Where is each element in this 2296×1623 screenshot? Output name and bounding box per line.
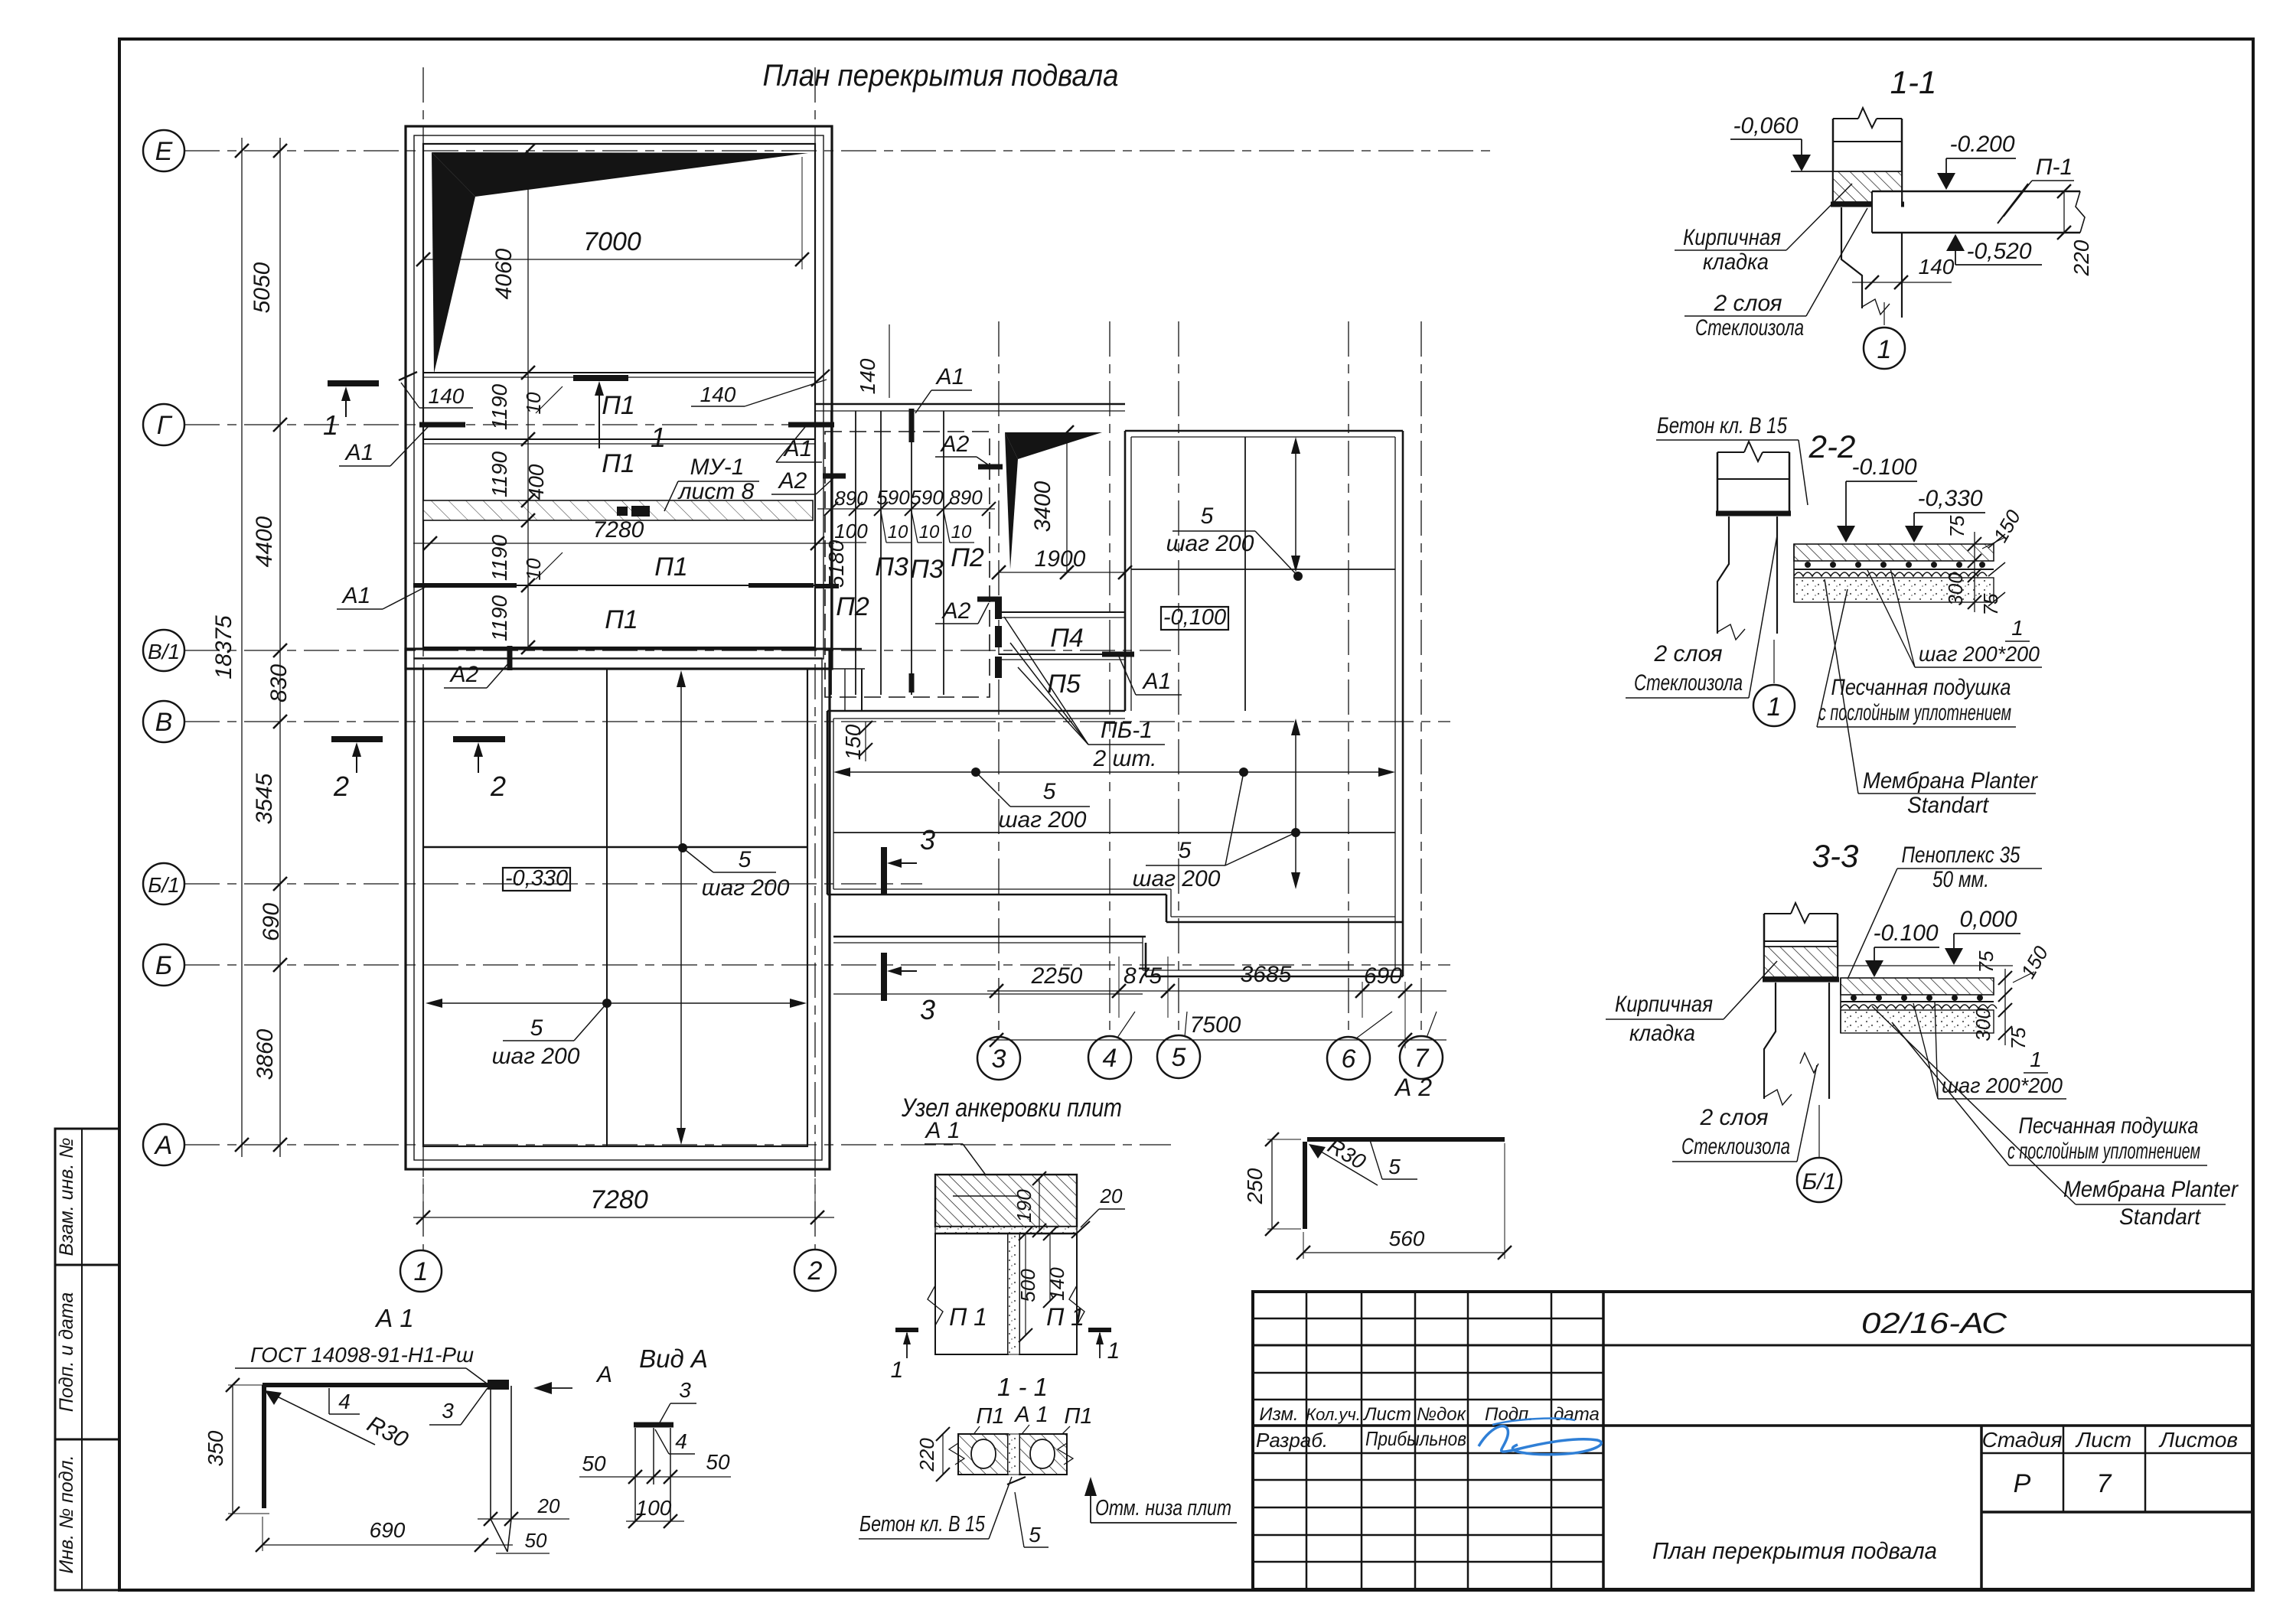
svg-text:50 мм.: 50 мм. [1932, 867, 1989, 892]
svg-text:П1: П1 [602, 449, 635, 478]
signature blue [1479, 1419, 1601, 1455]
label kirpichnaya kladka sec1-1 [1675, 184, 1852, 275]
svg-text:75: 75 [2007, 1027, 2030, 1049]
label A1 left lower [337, 583, 426, 609]
svg-text:А2: А2 [449, 662, 479, 687]
svg-text:5180: 5180 [824, 539, 848, 588]
svg-text:Б: Б [155, 951, 172, 980]
MU-1 hatch band [423, 500, 813, 520]
svg-text:с послойным уплотнением: с послойным уплотнением [2007, 1139, 2200, 1164]
svg-text:Прибыльнов: Прибыльнов [1365, 1427, 1466, 1450]
svg-text:2: 2 [807, 1256, 823, 1286]
axis B1 line [184, 883, 922, 885]
svg-text:Б/1: Б/1 [148, 873, 180, 897]
svg-text:А2: А2 [940, 432, 970, 457]
svg-text:140: 140 [1045, 1267, 1068, 1301]
svg-text:П1: П1 [654, 552, 688, 582]
svg-text:890: 890 [834, 487, 868, 510]
svg-text:1190: 1190 [488, 595, 511, 641]
slab band top line [423, 373, 815, 377]
svg-text:Изм.: Изм. [1259, 1404, 1298, 1425]
section 3-3 foundation [1764, 983, 1829, 1157]
uzel masonry block [935, 1175, 1077, 1227]
detail A1 title [374, 1304, 414, 1332]
level 0,000 sec3-3 [1945, 907, 2020, 965]
uzel dim 500 [1016, 1227, 1039, 1342]
svg-text:3: 3 [920, 824, 935, 855]
rebar extent horizontal arrow lower-left [426, 999, 807, 1008]
black wedge middle [1005, 432, 1102, 569]
svg-text:690: 690 [370, 1518, 406, 1542]
svg-text:18375: 18375 [211, 615, 236, 680]
section cut 3 upper [884, 824, 935, 895]
svg-text:П 1: П 1 [949, 1303, 987, 1331]
svg-text:7: 7 [2097, 1469, 2112, 1498]
uzel bed joint [935, 1227, 1077, 1234]
axis 5 line [1178, 321, 1179, 1036]
uzel 1-1 otm niza plit [1084, 1477, 1237, 1523]
axis circle E [143, 130, 184, 171]
svg-text:-0,330: -0,330 [505, 866, 568, 891]
axis 2 line [814, 67, 816, 1250]
vertical slabs P3 P3 P2 [831, 411, 984, 695]
label A2 lower middle [935, 598, 1002, 624]
section 3-3 floor layers [1838, 966, 2013, 1033]
svg-text:2-2: 2-2 [1808, 429, 1856, 464]
svg-text:-0,330: -0,330 [1917, 486, 1982, 511]
axis 1 line [422, 67, 424, 1250]
svg-text:690: 690 [1364, 963, 1402, 989]
svg-text:10: 10 [951, 522, 972, 543]
svg-text:1190: 1190 [488, 534, 511, 581]
label A1 right upper [776, 427, 822, 462]
detail A1 bar horizontal [263, 1383, 492, 1387]
svg-text:П2: П2 [951, 543, 984, 572]
dim 140 sec1-1 [1852, 255, 1955, 289]
circle node 1 sec1-1 [1864, 328, 1905, 369]
section cut 1 outer [323, 383, 379, 441]
label peschanaya podushka sec2-2 [1817, 589, 2016, 727]
detail A1 right leg [491, 1386, 511, 1552]
detail VidA legs [635, 1428, 670, 1521]
svg-text:3860: 3860 [253, 1028, 278, 1080]
top-left block outer wall [406, 126, 832, 669]
vertical rebar dim top-right room [1291, 437, 1300, 572]
svg-text:План перекрытия подвала: План перекрытия подвала [1652, 1537, 1937, 1564]
svg-text:50: 50 [525, 1529, 547, 1552]
axis V1 line [184, 650, 1171, 651]
svg-text:П2: П2 [836, 592, 869, 621]
svg-text:10: 10 [522, 558, 545, 580]
svg-text:75: 75 [1945, 515, 1968, 537]
section 3-3 wall [1763, 903, 1839, 979]
svg-text:5: 5 [1179, 838, 1192, 863]
svg-text:5: 5 [1201, 504, 1214, 529]
svg-text:П1: П1 [1064, 1404, 1092, 1429]
svg-text:7000: 7000 [583, 227, 641, 256]
P1 labels [602, 391, 688, 634]
svg-text:1: 1 [891, 1357, 904, 1383]
svg-text:10: 10 [888, 522, 908, 543]
svg-text:2250: 2250 [1031, 963, 1083, 989]
svg-text:2: 2 [490, 771, 506, 802]
svg-text:П4: П4 [1050, 624, 1084, 653]
axis circle 2 [794, 1250, 836, 1291]
svg-text:А1: А1 [935, 364, 965, 389]
axis circle 7 [1400, 1012, 1443, 1079]
detail A1 view arrow A [533, 1362, 612, 1394]
svg-text:План перекрытия подвала: План перекрытия подвала [763, 59, 1119, 93]
svg-text:300: 300 [1944, 572, 1967, 606]
svg-text:1: 1 [414, 1257, 429, 1286]
detail A1 R30 arrow [265, 1390, 413, 1453]
label A2 under circle 7 [1394, 1074, 1432, 1101]
svg-text:Разраб.: Разраб. [1256, 1429, 1328, 1452]
dim 4060 and 1190 rows column [488, 144, 563, 654]
svg-text:В: В [155, 708, 173, 737]
svg-text:шаг 200*200: шаг 200*200 [1942, 1074, 2063, 1097]
svg-text:П1: П1 [605, 605, 638, 634]
section cut 1 inner [573, 378, 666, 453]
section 2-2 foundation [1717, 517, 1777, 683]
svg-text:Р: Р [2014, 1469, 2031, 1498]
axis V line [184, 721, 1450, 722]
svg-text:5: 5 [1043, 779, 1056, 804]
detail A2 R30 arrow [1309, 1134, 1378, 1185]
svg-text:шаг 200: шаг 200 [702, 875, 790, 901]
dim 3400 [1030, 425, 1074, 579]
svg-text:Кирпичная: Кирпичная [1683, 225, 1781, 250]
svg-text:1 - 1: 1 - 1 [997, 1373, 1048, 1401]
wall stub at V1 right of lower-left room [830, 649, 865, 711]
svg-text:П1: П1 [602, 391, 635, 420]
uzel section mark 1 left [891, 1330, 918, 1383]
axis 3 line [998, 321, 1000, 1036]
axis circle 5 [1157, 1012, 1200, 1078]
svg-text:В/1: В/1 [148, 640, 180, 663]
svg-text:1-1: 1-1 [1890, 64, 1937, 100]
rebar label 5 shag200 upper [678, 843, 790, 901]
svg-text:Кирпичная: Кирпичная [1615, 992, 1713, 1017]
axis circle G [143, 404, 184, 445]
extension lines bottom dims [1119, 957, 1405, 1048]
dim 220 sec1-1 [2057, 184, 2093, 276]
svg-text:10: 10 [522, 392, 545, 414]
detail VidA dim 100 [626, 1496, 684, 1528]
svg-text:890: 890 [949, 486, 983, 509]
uzel slabs P1 P1 [928, 1234, 1084, 1354]
P4 slab box [995, 599, 1134, 699]
svg-text:4: 4 [675, 1429, 687, 1453]
svg-text:-0.200: -0.200 [1949, 132, 2014, 157]
middle section dashed outline [825, 432, 990, 697]
svg-text:1: 1 [1877, 335, 1892, 364]
axis 7 line [1420, 321, 1422, 1036]
axis circle V1 [143, 630, 184, 671]
label 2 sloya sec3-3 [1672, 1065, 1817, 1162]
svg-text:20: 20 [1100, 1185, 1123, 1207]
section cut 2 outer [331, 739, 383, 802]
label A2 top of lower room [444, 646, 510, 688]
svg-text:560: 560 [1389, 1227, 1425, 1250]
svg-text:220: 220 [2069, 240, 2093, 276]
svg-text:50: 50 [582, 1452, 606, 1475]
horizontal rebar dim wide room [833, 768, 1395, 777]
axis circle 3 [977, 1037, 1020, 1080]
uzel dim 190 [1013, 1172, 1046, 1237]
dim stack right sec2-2 [1944, 506, 2025, 616]
dim 150 joint [841, 721, 872, 761]
svg-text:4400: 4400 [252, 516, 277, 567]
svg-text:1: 1 [1107, 1338, 1120, 1364]
svg-text:4060: 4060 [491, 248, 517, 299]
axis circle A [143, 1124, 184, 1165]
detail VidA bar [634, 1423, 673, 1428]
svg-text:7280: 7280 [593, 517, 644, 543]
svg-text:Standart: Standart [2119, 1204, 2202, 1230]
svg-text:Стеклоизола: Стеклоизола [1695, 315, 1804, 341]
svg-text:1190: 1190 [488, 383, 511, 430]
uzel ankerovki title [901, 1093, 1122, 1123]
label P-1 [2004, 155, 2074, 217]
detail A1 dim 690 [256, 1517, 513, 1552]
svg-text:Взам. инв. №: Взам. инв. № [56, 1138, 77, 1256]
svg-text:875: 875 [1124, 963, 1162, 989]
svg-text:50: 50 [706, 1450, 730, 1474]
uzel dim 140 [1043, 1227, 1068, 1308]
svg-text:дата: дата [1554, 1404, 1600, 1425]
svg-text:Песчанная подушка: Песчанная подушка [2019, 1113, 2199, 1139]
svg-text:Мембрана Planter: Мембрана Planter [2063, 1177, 2239, 1202]
section cut 2 inner [453, 739, 506, 802]
svg-text:шаг 200: шаг 200 [1133, 866, 1221, 891]
A1 bearing ticks on axis G [419, 422, 834, 428]
svg-text:5: 5 [1172, 1043, 1186, 1072]
svg-text:830: 830 [266, 664, 292, 702]
label 2 sloya sec2-2 [1626, 536, 1777, 698]
level -0.200 [1913, 132, 2016, 191]
svg-text:МУ-1: МУ-1 [690, 455, 745, 480]
uzel 1-1 labels [970, 1403, 1093, 1442]
svg-text:кладка: кладка [1703, 249, 1769, 275]
uzel 1-1 beton label [859, 1477, 1012, 1539]
svg-text:2 слоя: 2 слоя [1654, 641, 1723, 666]
label MU-1 list 8 [664, 455, 759, 511]
rebar label 5 shag200 lower [492, 999, 612, 1069]
svg-text:Пеноплекс 35: Пеноплекс 35 [1902, 842, 2020, 868]
svg-text:Кол.уч.: Кол.уч. [1306, 1405, 1361, 1424]
uzel 1-1 section title [997, 1373, 1048, 1401]
label A2 right with tick [771, 468, 846, 494]
detail A1 flag 3 [429, 1388, 488, 1425]
axis circle B1 [143, 863, 184, 904]
svg-text:3400: 3400 [1030, 481, 1055, 532]
svg-text:1190: 1190 [488, 451, 511, 497]
detail A1 dim 20 [478, 1494, 569, 1553]
svg-text:0,000: 0,000 [1959, 907, 2017, 932]
section 1-1 wall [1831, 108, 1904, 204]
dim 1900 [992, 546, 1132, 579]
label PB-1 2sht [1004, 617, 1165, 771]
svg-text:П1: П1 [976, 1404, 1004, 1429]
svg-text:2: 2 [333, 771, 349, 802]
level box -0,100 [1161, 605, 1228, 630]
svg-text:7280: 7280 [590, 1185, 648, 1214]
detail A2 flag 5 [1370, 1140, 1417, 1179]
svg-text:Листов: Листов [2158, 1428, 2238, 1452]
svg-text:190: 190 [1013, 1189, 1035, 1223]
svg-text:Лист: Лист [1362, 1404, 1411, 1425]
level -0.100 sec3-3 [1865, 921, 1939, 977]
svg-text:Лист: Лист [2075, 1428, 2131, 1452]
detail A2 dim 250 [1243, 1133, 1301, 1236]
svg-text:02/16-АС: 02/16-АС [1861, 1308, 2007, 1340]
axis circle V [143, 701, 184, 742]
svg-text:А1: А1 [341, 583, 371, 608]
label peschanaya sec3-3 [1892, 1022, 2207, 1165]
svg-text:П-1: П-1 [2036, 155, 2073, 180]
svg-text:1900: 1900 [1035, 546, 1086, 572]
axis G line [184, 424, 838, 425]
svg-text:шаг 200: шаг 200 [999, 807, 1087, 833]
dim stack right sec3-3 [1971, 942, 2053, 1050]
detail A2 bar horizontal [1307, 1137, 1505, 1142]
label kirpichnaya sec3-3 [1606, 961, 1777, 1046]
svg-text:100: 100 [834, 520, 868, 543]
svg-text:1: 1 [323, 409, 338, 441]
svg-text:1: 1 [1767, 693, 1782, 722]
dim 7000 [416, 157, 809, 269]
detail VidA dims 50 50 [579, 1450, 731, 1484]
svg-text:Отм. низа плит: Отм. низа плит [1095, 1496, 1231, 1520]
svg-text:лист 8: лист 8 [677, 479, 755, 504]
uzel label A1 [924, 1118, 991, 1182]
axis circle B [143, 944, 184, 986]
svg-text:140: 140 [700, 383, 736, 406]
dim 140 left [399, 372, 473, 408]
axis B line [184, 964, 1450, 966]
svg-text:А2: А2 [941, 598, 971, 624]
svg-text:шаг 200*200: шаг 200*200 [1919, 642, 2040, 666]
svg-text:100: 100 [636, 1496, 672, 1520]
detail A1 GOST label [235, 1343, 490, 1386]
label A1 top of right part [912, 364, 972, 693]
detail A1 dim 350 [204, 1378, 269, 1520]
dim 7280 top-left [413, 517, 834, 550]
section cut 3 lower [884, 953, 935, 1025]
svg-text:75: 75 [1975, 950, 1998, 973]
lower wing walls [833, 937, 1403, 994]
svg-text:140: 140 [429, 384, 465, 408]
svg-text:3: 3 [920, 994, 935, 1025]
svg-text:Стадия: Стадия [1982, 1428, 2063, 1452]
svg-text:П 1: П 1 [1046, 1303, 1084, 1331]
slab separator horizontal lower-left [423, 846, 807, 849]
section 3-3 title [1812, 838, 1859, 874]
uzel section mark 1 right [1088, 1330, 1120, 1364]
uzel 1-1 slab section [949, 1434, 1073, 1475]
section 1-1 title [1890, 64, 1937, 100]
svg-text:Инв. № подл.: Инв. № подл. [56, 1455, 77, 1573]
dim 140 right [691, 370, 830, 406]
svg-text:ПБ-1: ПБ-1 [1101, 718, 1153, 743]
section 2-2 wall [1716, 442, 1791, 513]
label A1 at P5 [1119, 657, 1182, 695]
section 2-2 floor layers [1794, 544, 1994, 602]
svg-text:3545: 3545 [252, 773, 277, 824]
slab separator vertical lower-left [606, 669, 608, 1146]
svg-text:А 1: А 1 [924, 1118, 960, 1143]
slab row line 4 with bearing marks [413, 585, 839, 586]
svg-text:7500: 7500 [1190, 1012, 1241, 1038]
axis circle 4 [1088, 1012, 1135, 1079]
section 1-1 slab P-1 [1872, 184, 2085, 233]
svg-text:Standart: Standart [1907, 793, 1990, 818]
svg-text:№док: №док [1417, 1404, 1467, 1425]
svg-text:5: 5 [1388, 1155, 1401, 1178]
axis circle 1 [400, 1250, 442, 1292]
svg-text:кладка: кладка [1629, 1021, 1695, 1046]
svg-text:шаг 200: шаг 200 [492, 1044, 580, 1069]
detail VidA flag 4 [655, 1429, 695, 1454]
detail A1 left hook [262, 1385, 266, 1508]
label membrana sec3-3 [1872, 1006, 2239, 1230]
svg-text:350: 350 [204, 1430, 227, 1466]
left overall dim line 18375 [211, 138, 249, 1157]
level mark -0,330 [503, 866, 570, 891]
rebar label sec2-2 [1867, 569, 2042, 667]
title block [1253, 1292, 2252, 1589]
svg-text:590: 590 [876, 486, 910, 509]
svg-text:140: 140 [856, 358, 879, 394]
svg-text:Бетон кл. В 15: Бетон кл. В 15 [859, 1512, 986, 1537]
level -0,330 sec2-2 [1905, 486, 1985, 543]
svg-text:140: 140 [1919, 255, 1955, 279]
middle top wall double line [815, 404, 1125, 411]
svg-text:ГОСТ 14098-91-Н1-Рш: ГОСТ 14098-91-Н1-Рш [250, 1343, 474, 1367]
rebar label sec3-3 [1913, 1002, 2066, 1099]
svg-text:Г: Г [157, 411, 173, 440]
axis E line [184, 150, 1492, 152]
slab line wide room [833, 828, 1395, 837]
svg-text:5: 5 [739, 847, 752, 872]
label 5 shag200 wide room 2 [1133, 772, 1296, 891]
svg-text:-0,100: -0,100 [1163, 605, 1226, 630]
svg-text:3: 3 [679, 1378, 691, 1402]
svg-text:3: 3 [992, 1045, 1006, 1074]
svg-text:А 2: А 2 [1394, 1074, 1432, 1101]
svg-text:Бетон кл. В 15: Бетон кл. В 15 [1657, 413, 1787, 438]
svg-text:2 шт.: 2 шт. [1093, 746, 1157, 771]
svg-text:Мембрана Planter: Мембрана Planter [1863, 768, 2038, 794]
axis A line [184, 1144, 1171, 1146]
svg-text:Б/1: Б/1 [1802, 1169, 1837, 1194]
svg-text:5050: 5050 [249, 262, 275, 313]
svg-text:А1: А1 [344, 440, 374, 465]
svg-text:690: 690 [259, 903, 284, 941]
detail A2 dim 560 [1296, 1143, 1512, 1260]
svg-text:10: 10 [919, 522, 940, 543]
svg-text:Песчанная подушка: Песчанная подушка [1831, 675, 2011, 700]
vertical rebar dim wide room [1291, 719, 1300, 889]
svg-text:Подп. и дата: Подп. и дата [56, 1292, 77, 1413]
axis 6 line [1348, 321, 1349, 1036]
label 5 shag200 top-right [1166, 504, 1303, 581]
svg-text:4: 4 [338, 1390, 351, 1413]
main plan title [763, 59, 1119, 93]
svg-text:А 1: А 1 [374, 1304, 414, 1332]
svg-text:220: 220 [915, 1438, 938, 1472]
